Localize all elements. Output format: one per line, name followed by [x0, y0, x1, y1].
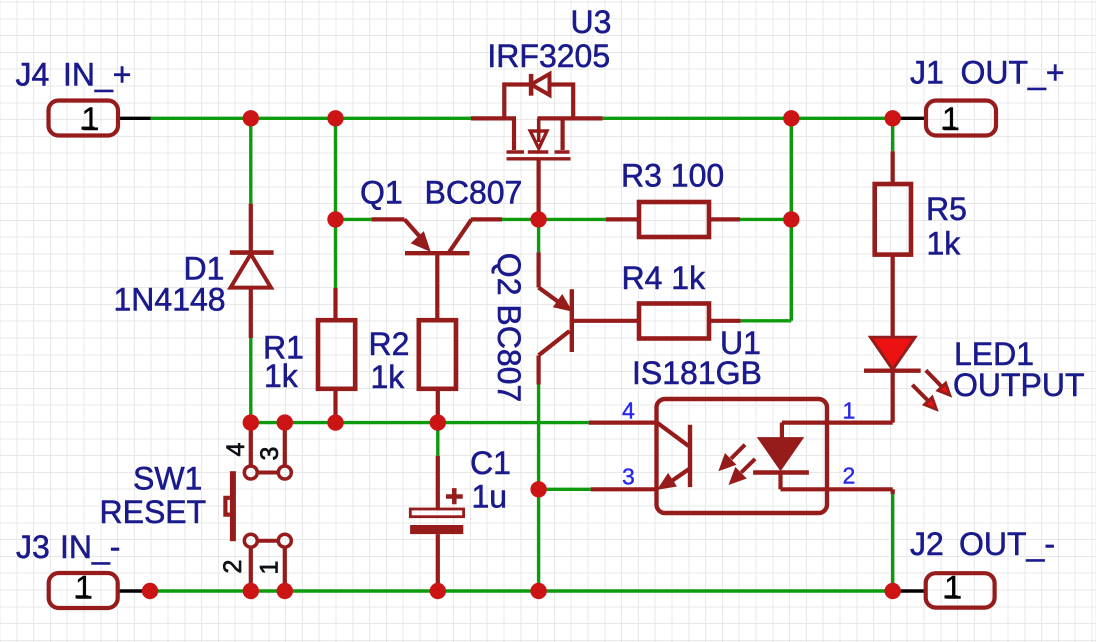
svg-text:R4 1k: R4 1k [622, 260, 707, 296]
svg-text:R2: R2 [369, 326, 410, 362]
svg-text:R3 100: R3 100 [621, 158, 724, 194]
svg-text:3: 3 [256, 447, 284, 461]
svg-text:1u: 1u [472, 478, 508, 514]
svg-text:Q2 BC807: Q2 BC807 [491, 253, 527, 402]
svg-text:U3: U3 [571, 4, 612, 40]
svg-text:1: 1 [944, 570, 962, 606]
svg-text:C1: C1 [470, 445, 511, 481]
svg-text:J3: J3 [16, 529, 50, 565]
svg-text:J4: J4 [16, 57, 50, 93]
svg-text:IRF3205: IRF3205 [487, 38, 610, 74]
svg-text:1: 1 [843, 398, 856, 424]
svg-text:2: 2 [219, 560, 247, 574]
svg-text:J1: J1 [910, 55, 944, 91]
svg-text:1k: 1k [927, 225, 962, 261]
svg-text:Q1: Q1 [360, 174, 403, 210]
svg-text:4: 4 [222, 443, 250, 457]
svg-text:SW1: SW1 [133, 460, 202, 496]
svg-text:4: 4 [622, 397, 635, 423]
svg-text:IS181GB: IS181GB [632, 355, 762, 391]
svg-text:1: 1 [82, 101, 100, 137]
svg-text:1: 1 [942, 101, 960, 137]
svg-text:1k: 1k [371, 359, 406, 395]
svg-text:1: 1 [75, 570, 93, 606]
svg-text:1: 1 [256, 561, 284, 575]
svg-text:IN_-: IN_- [60, 529, 120, 565]
svg-text:1N4148: 1N4148 [114, 282, 226, 318]
svg-text:OUT_-: OUT_- [959, 526, 1055, 562]
svg-text:OUT_+: OUT_+ [961, 55, 1065, 91]
svg-text:R5: R5 [926, 191, 967, 227]
svg-text:IN_+: IN_+ [63, 57, 131, 93]
svg-text:3: 3 [622, 464, 635, 490]
svg-text:J2: J2 [910, 526, 944, 562]
svg-text:RESET: RESET [100, 494, 207, 530]
svg-text:OUTPUT: OUTPUT [953, 367, 1085, 403]
svg-text:BC807: BC807 [425, 174, 523, 210]
svg-text:2: 2 [843, 463, 856, 489]
svg-text:1k: 1k [264, 358, 299, 394]
